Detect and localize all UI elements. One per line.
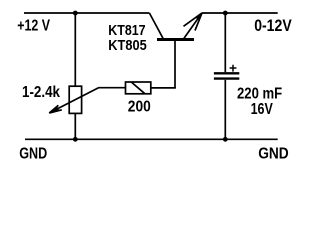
wire wiper to resistor (99, 87, 126, 89)
wire pot bottom to GND rail (74, 113, 76, 139)
svg-text:16V: 16V (251, 101, 274, 118)
node junction dot top left (73, 11, 78, 16)
potentiometer R1 wiper arrow (49, 88, 99, 114)
transistor Q1 emitter lead (184, 13, 202, 38)
transistor Q1 emitter arrowhead fill (196, 13, 203, 20)
svg-text:200: 200 (128, 98, 151, 115)
node junction dot top right (223, 11, 228, 16)
svg-text:+12 V: +12 V (17, 18, 50, 35)
capacitor C1 polarity plus sign (230, 65, 237, 72)
transistor Q1 base bar (157, 38, 194, 41)
resistor R2 200 body (126, 82, 151, 94)
svg-text:GND: GND (258, 145, 289, 162)
potentiometer R1 wiper arrowhead fill (49, 107, 59, 114)
node junction dot bottom left (73, 137, 78, 142)
wire base to resistor (151, 87, 176, 89)
transistor Q1 emitter arrowhead (184, 13, 203, 31)
wire base lead down (174, 41, 176, 88)
svg-text:GND: GND (19, 146, 47, 163)
capacitor C1 bottom plate (214, 77, 239, 79)
resistor R2 internal diagonal (131, 82, 145, 94)
wire capacitor to GND rail (224, 80, 226, 140)
wire top-left +12V rail (24, 12, 149, 14)
transistor Q1 collector lead (149, 13, 163, 38)
capacitor C1 top plate (214, 72, 239, 74)
svg-text:KT805: KT805 (108, 37, 146, 54)
potentiometer R1 body (69, 86, 81, 113)
svg-text:1-2.4k: 1-2.4k (22, 84, 60, 101)
svg-text:0-12V: 0-12V (254, 17, 292, 35)
wire bottom GND rail (25, 138, 278, 140)
wire top-right 0-12V rail (202, 12, 278, 14)
wire emitter junction to capacitor (224, 13, 226, 72)
node junction dot bottom right (223, 137, 228, 142)
wire +12V to pot top (74, 13, 76, 86)
